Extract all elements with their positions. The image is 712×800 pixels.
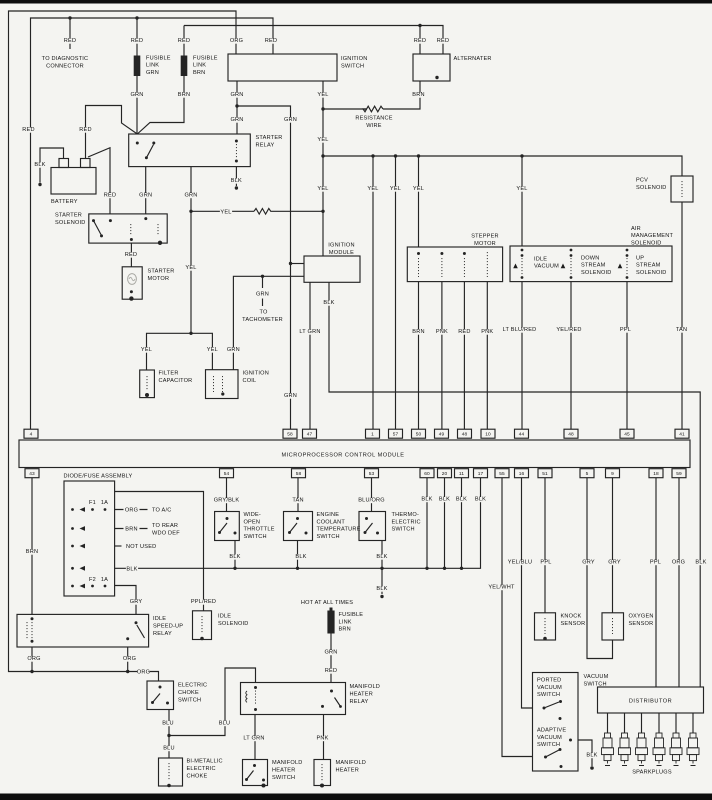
MCM top terminal 45 [620,429,634,438]
MCM bottom terminal 59 [672,469,686,478]
label: FILTER CAPACITOR [159,371,193,385]
WOT switch dots [218,517,237,535]
svg-text:WIRE: WIRE [366,123,381,129]
svg-text:18: 18 [653,471,659,477]
MCM bottom terminal 55 [495,469,509,478]
svg-text:MODULE: MODULE [329,250,354,256]
starter relay coil column [235,140,238,163]
MCM top terminal 50 [412,429,426,438]
label: PCV SOLENOID [636,178,667,192]
label: BLU (upper) [162,721,174,727]
node: junction BLU [167,734,170,737]
svg-text:10: 10 [485,432,491,438]
svg-text:BRN: BRN [26,549,38,555]
engine coolant temperature switch box [284,512,313,541]
wire: diode row3 stub [115,545,122,547]
ported switch dots [543,700,563,720]
sparkplug 4 [653,733,665,766]
svg-text:OPEN: OPEN [244,519,261,525]
label: PPL/RED [190,599,217,605]
label: STEPPER MOTOR [471,234,499,248]
label: TO DIAGNOSTIC CONNECTOR [42,56,89,70]
manifold heater box [314,760,331,786]
svg-text:LINK: LINK [339,619,352,625]
svg-text:GRN: GRN [184,193,197,199]
svg-text:ORG: ORG [27,656,40,662]
wire: sparkplug 4 lead [658,713,660,733]
wire: YEL from ignition switch to ignition module [322,81,324,256]
label: YEL (down mid) [185,265,197,271]
WOT switch arm [220,523,228,533]
filter capacitor ground dot [145,393,149,397]
wire: fusible to manifold heater relay [330,634,332,683]
label: LT GRN (manifold) [241,736,268,742]
wire: GRY/BLK terminal 54 to WOT switch [226,478,228,512]
wire: YEL drop to air mgmt solenoid [521,156,523,246]
sparkplug 2 [619,733,631,766]
battery box [51,168,96,195]
svg-text:BLK: BLK [421,497,432,503]
label: DIODE/FUSE ASSEMBLY [64,474,133,480]
label: GRN (to term 58) [284,393,297,399]
svg-text:BRN: BRN [125,527,137,533]
label: YEL (air mgmt) [516,186,528,192]
svg-text:SWITCH: SWITCH [272,775,295,781]
svg-text:YEL: YEL [185,265,196,271]
svg-text:TO DIAGNOSTIC: TO DIAGNOSTIC [42,56,89,62]
wire: manifold relay PNK to heater [323,715,325,760]
svg-text:PNK: PNK [316,736,328,742]
svg-text:BLK: BLK [456,497,467,503]
label: PPL (dist) [649,560,661,566]
svg-text:BLK: BLK [295,554,306,560]
label: ORG (dist) [672,560,685,566]
svg-text:BLK: BLK [439,497,450,503]
svg-text:4: 4 [30,432,33,438]
svg-text:SENSOR: SENSOR [629,621,654,627]
wire: sparkplug 1 lead [607,713,609,733]
svg-text:45: 45 [624,432,630,438]
svg-text:YEL/BLU: YEL/BLU [508,560,532,566]
svg-text:SWITCH: SWITCH [537,692,560,698]
choke switch arm [153,694,161,703]
vacuum switch box [533,673,579,772]
sparkplug 1 [602,733,614,766]
node: junction YEL row right [321,210,324,213]
label: BRN row2 [125,527,137,533]
wire: YEL drop to terminal 1 [372,156,374,429]
svg-text:ELECTRIC: ELECTRIC [187,766,216,772]
node: junction 11/bus [460,567,463,570]
svg-text:BLK: BLK [376,554,387,560]
node: junction ECTS/bus [296,567,299,570]
fusible link BRN body [181,56,188,77]
svg-text:NOT USED: NOT USED [126,544,156,550]
svg-text:HEATER: HEATER [350,692,373,698]
svg-text:BLK: BLK [34,162,45,168]
label: MANIFOLD HEATER RELAY [350,684,381,705]
wire: diode F2 GRY to idle speed-up relay [115,586,136,615]
ECTS dots [288,517,308,535]
manifold relay arm [335,698,342,708]
wire: diode row2 BRN to rear window [115,528,148,530]
wire: ORG terminal 59 to distributor [678,478,680,687]
MCM bottom terminal 5 [580,469,594,478]
label: ORG (ignition switch) [230,38,243,44]
bi-metallic electric choke box [159,758,183,786]
wire: sparkplug 6 lead [692,713,694,733]
svg-text:55: 55 [499,471,505,477]
label: FUSIBLE LINK BRN (manifold) [339,612,364,633]
label: ELECTRIC CHOKE SWITCH [178,683,207,704]
svg-text:MOTOR: MOTOR [148,276,170,282]
starter solenoid corner dot [158,241,162,245]
wire: battery BLK ground [40,148,64,183]
idle relay arm [137,625,145,638]
label: RED (alt left) [414,38,426,44]
label: BLU (lower) [163,746,175,752]
oxygen sensor dashed col [612,618,614,634]
starter motor symbol [128,274,137,285]
wire: GRN from ignition switch to starter relay [236,81,238,134]
svg-text:FUSIBLE: FUSIBLE [339,612,364,618]
node: YEL bus junction at ignition line [321,154,324,157]
wire: ECTS BLK to ground bus [297,541,299,569]
svg-text:CHOKE: CHOKE [178,690,199,696]
svg-text:ORG: ORG [137,670,150,676]
bi-metallic dashed col [168,763,170,781]
svg-text:49: 49 [439,432,445,438]
wire: starter relay GRN to solenoid [145,167,147,214]
fusible link GRN body [134,56,141,77]
MCM bottom terminal 17 [474,469,488,478]
node: junction tachometer [261,275,264,278]
svg-text:GRY: GRY [608,560,621,566]
svg-text:F1: F1 [89,500,96,506]
svg-text:51: 51 [542,471,548,477]
svg-text:F2: F2 [89,577,96,583]
svg-text:5: 5 [586,471,589,477]
starter solenoid arm tip [100,234,103,237]
idle relay contact dots [126,621,137,640]
label: BLK t60 [421,497,433,503]
up stream triangle [618,264,623,269]
svg-text:41: 41 [679,432,685,438]
sparkplug 5 [670,733,682,766]
wire: YEL/BLU terminal 16 to ported vacuum switch [522,478,533,708]
node: junction ORG left [30,670,33,673]
label: ORG (choke feed) [137,670,150,676]
wire: YEL bus rail to PCV solenoid [323,156,682,176]
label: BLK (module) [323,300,335,306]
wire: TAN from pcv to terminal 41 [681,202,683,429]
label: DOWN STREAM SOLENOID [581,256,612,276]
svg-text:RED: RED [64,38,76,44]
node: YEL bus junction t57 [394,154,397,157]
svg-text:GRN: GRN [130,92,143,98]
wire: YEL drop to stepper motor [418,156,420,247]
label: GRN (relay down) [184,193,197,199]
wire: resistance wire to YEL line [323,108,367,110]
svg-text:SOLENOID: SOLENOID [581,270,612,276]
node: junction YEL row left [189,210,192,213]
MCM top terminal 47 [303,429,317,438]
node: starter relay ground dot [235,186,238,189]
svg-text:53: 53 [369,471,375,477]
svg-text:BLK: BLK [231,178,242,184]
node: YEL bus junction t1 [371,154,374,157]
MCM top terminal 58 [283,429,297,438]
svg-text:BI-METALLIC: BI-METALLIC [187,759,223,765]
label: RED (ignition switch) [265,38,277,44]
svg-text:11: 11 [459,471,464,477]
label: SPARKPLUGS [632,770,672,776]
label: BRN (term 43) [26,549,38,555]
node: YEL bus junction air mgmt [520,154,523,157]
starter relay box [129,134,251,167]
svg-text:PPL/RED: PPL/RED [191,599,216,605]
svg-text:YEL: YEL [141,347,152,353]
svg-text:RELAY: RELAY [153,631,172,637]
label: YEL/WHT [488,585,515,591]
distributor box [598,687,704,713]
svg-text:ORG: ORG [672,560,685,566]
starter solenoid dashed col 1 [130,224,132,236]
svg-text:ENGINE: ENGINE [317,512,340,518]
svg-text:MANAGEMENT: MANAGEMENT [631,233,673,239]
svg-text:HEATER: HEATER [336,768,359,774]
idle vacuum triangle [513,264,518,269]
svg-text:BLU: BLU [219,721,230,727]
label: TO REAR WDO DEF [152,523,180,537]
manifold heater switch dots [245,764,265,782]
svg-text:ORG: ORG [230,38,243,44]
MCM bottom terminal 20 [438,469,452,478]
wire: diode row1 ORG to A/C [115,509,148,511]
label: YEL (coil) [206,347,218,353]
label: PNK (stepper2) [481,329,493,335]
svg-text:VACUUM: VACUUM [534,264,559,270]
wire: GRN module to ignition coil [233,276,304,369]
wire: BLK terminal 11 to ground bus [461,478,463,568]
label: BLK row4 [126,566,138,572]
svg-text:RESISTANCE: RESISTANCE [355,116,392,122]
svg-text:GRN: GRN [227,347,240,353]
svg-text:TAN: TAN [676,327,687,333]
wire: RED rail to alternater [184,26,443,55]
svg-text:SPEED-UP: SPEED-UP [153,624,183,630]
svg-text:47: 47 [307,432,313,438]
label: GRN (manifold) [324,650,337,656]
svg-text:YEL: YEL [220,210,231,216]
label: MANIFOLD HEATER [336,760,367,774]
svg-text:STARTER: STARTER [256,135,283,141]
label: BLK (starter relay) [230,178,242,184]
label: BLK (vacuum) [586,753,598,759]
svg-text:SWITCH: SWITCH [341,64,364,70]
label: RED (to solenoid) [104,193,116,199]
node: junction GRN split [235,104,238,107]
svg-text:VACUUM: VACUUM [584,674,609,680]
wire: YEL/WHT terminal 55 to adaptive vacuum switch [502,478,533,757]
svg-text:YEL: YEL [207,347,218,353]
MCM bottom terminal 51 [538,469,552,478]
node: junction YEL cap/coil [189,332,192,335]
svg-text:44: 44 [519,432,525,438]
diode row 1 dot+arrow [71,507,85,512]
svg-text:RED: RED [104,193,116,199]
wire: stepper PNK2 to terminal 10 [486,282,488,429]
svg-text:TO REAR: TO REAR [152,523,178,529]
wire: YEL drop to terminal 57 [395,156,397,429]
choke switch dots [151,686,169,705]
svg-text:BLK: BLK [323,300,334,306]
MCM bottom terminal 60 [420,469,434,478]
wire: fusible link GRN drop [136,18,138,134]
idle relay coil dots [31,617,34,643]
label: PPL (air) [619,327,631,333]
label: PNK (manifold) [316,736,328,742]
wire: battery RED to starter solenoid [88,148,110,214]
wire: ignition-switch ORG feed loop (top rail, left side rail, bottom ORG rail) [9,11,237,681]
label: TAN [675,327,687,333]
svg-text:GRN: GRN [256,292,269,298]
svg-text:58: 58 [296,471,302,477]
TES arm [365,523,373,533]
manifold heater dashed col [321,764,323,781]
knock sensor box [535,613,556,640]
label: GRN (below fusible link) [130,92,143,98]
svg-text:BLU: BLU [163,746,174,752]
svg-text:HEATER: HEATER [272,768,295,774]
svg-text:59: 59 [676,471,682,477]
label: DISTRIBUTOR [629,699,672,705]
wire: sparkplug 5 lead [675,713,677,733]
wire: tachometer stub upper [262,276,264,288]
starter relay arm [146,145,153,158]
wire: choke BLU down to bi-metallic choke [168,710,170,759]
svg-text:MANIFOLD: MANIFOLD [336,760,367,766]
label: LT BLU/RED [501,327,539,333]
adaptive switch dots [544,739,572,769]
starter motor dot [130,290,133,293]
label: ALTERNATER [454,56,492,62]
svg-text:SOLENOID: SOLENOID [55,220,86,226]
MCM bottom terminal 11 [455,469,469,478]
label: YEL (resistor row) [220,210,232,216]
label: BLK t20 [438,497,450,503]
svg-text:YEL: YEL [413,186,424,192]
svg-text:BLU/ORG: BLU/ORG [358,498,385,504]
label: LT GRN (module) [298,329,321,335]
label: STARTER MOTOR [148,269,175,283]
adaptive switch arm [546,750,560,757]
fuse F1 dots [91,508,106,511]
svg-text:YEL: YEL [516,186,527,192]
thermo-electric switch box [359,512,386,541]
electric choke switch box [147,681,174,710]
ignition coil dot [221,392,224,395]
svg-text:YEL: YEL [317,92,328,98]
label: IDLE SPEED-UP RELAY [153,616,183,637]
svg-text:ORG: ORG [125,508,138,514]
svg-text:GRY: GRY [130,599,143,605]
svg-text:43: 43 [29,471,35,477]
svg-text:ALTERNATER: ALTERNATER [454,56,492,62]
svg-text:20: 20 [442,471,448,477]
idle solenoid ground dot [200,637,204,641]
label: TAN (ECTS) [292,498,304,504]
label: GRN (right drop) [284,117,297,123]
svg-text:PORTED: PORTED [537,678,561,684]
svg-text:LT GRN: LT GRN [243,736,264,742]
label: BLK (ECTS) [295,554,307,560]
svg-text:VACUUM: VACUUM [537,735,562,741]
label: YEL (term57) [389,186,401,192]
svg-text:58: 58 [287,432,293,438]
node: YEL bus junction stepper [417,154,420,157]
label: RED (fusible BRN) [178,38,190,44]
svg-text:LT GRN: LT GRN [299,329,320,335]
MCM top terminal 49 [435,429,449,438]
svg-text:THROTTLE: THROTTLE [244,527,275,533]
ported switch arm [544,702,559,708]
svg-text:BRN: BRN [412,329,424,335]
svg-text:FUSIBLE: FUSIBLE [146,56,171,62]
wire: GRY terminal 5 to oxygen sensor bottom [587,478,613,659]
label: BRN (stepper) [412,329,424,335]
label: BRN (alternater) [412,92,424,98]
MCM bottom terminal 18 [649,469,663,478]
label: GRY (F2) [130,599,143,605]
idle solenoid box [193,611,212,640]
fuse F2 label [89,577,108,583]
svg-text:YEL/RED: YEL/RED [556,327,581,333]
svg-text:VACUUM: VACUUM [537,685,562,691]
label: UP STREAM SOLENOID [636,256,667,276]
svg-text:CAPACITOR: CAPACITOR [159,378,193,384]
label: RED (battery riser) [79,127,91,133]
wire: PPL/RED to idle solenoid [115,492,204,611]
wire: PPL terminal 51 to knock sensor [544,478,546,613]
filter capacitor dashed col [146,376,148,391]
label: GRY (term 9) [608,560,621,566]
MCM bottom terminal 54 [220,469,234,478]
MCM bottom terminal 53 [365,469,379,478]
svg-text:BRN: BRN [339,627,351,633]
svg-text:BLK: BLK [229,554,240,560]
wire: starter relay BLK ground [235,167,237,186]
label: TO TACHOMETER [242,310,283,324]
svg-text:PNK: PNK [436,329,448,335]
MCM top terminal 44 [515,429,529,438]
label: YEL (stepper) [412,186,424,192]
label: BLK (distributor drop) [695,560,707,566]
svg-text:YEL/WHT: YEL/WHT [488,585,515,591]
label: PPL (knock) [540,560,552,566]
svg-text:HOT AT ALL TIMES: HOT AT ALL TIMES [301,600,353,606]
up stream column [626,249,629,279]
svg-text:ORG: ORG [123,656,136,662]
label: YEL/BLU [507,560,534,566]
wire: TES BLK through bus to ground [381,541,383,595]
svg-text:GRY: GRY [582,560,595,566]
svg-text:16: 16 [519,471,525,477]
label: BLK (battery) [34,162,46,168]
node: junction TES/bus [380,567,383,570]
svg-text:RELAY: RELAY [256,143,275,149]
node: junction YEL/resistance wire [321,107,324,110]
